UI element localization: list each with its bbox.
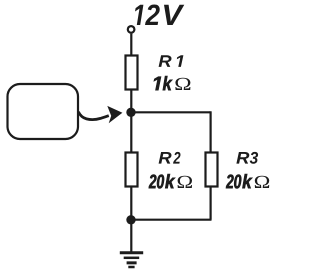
callout bubble xyxy=(8,84,79,139)
wire right branch down to R3 xyxy=(210,111,212,152)
terminal 12V xyxy=(128,26,135,33)
value 1k ohm xyxy=(154,76,173,90)
callout arrow curve xyxy=(78,112,109,120)
resistor R2 xyxy=(126,153,138,187)
ohm symbol (R3 value) xyxy=(255,176,269,188)
resistor R1 xyxy=(126,56,138,90)
value 20k ohm (R2) xyxy=(149,174,175,188)
wire R1 to node A xyxy=(130,90,132,113)
ohm symbol (R2 value) xyxy=(178,176,192,188)
callout arrowhead xyxy=(107,106,122,123)
bottom rail wire xyxy=(131,219,212,221)
junction bottom node xyxy=(126,215,135,224)
junction node A xyxy=(126,108,135,117)
wire R3 to bottom rail xyxy=(210,187,212,220)
label R3 xyxy=(236,152,258,164)
wire terminal to R1 xyxy=(130,34,132,55)
label R1 xyxy=(159,55,184,67)
wire node to ground xyxy=(130,220,132,252)
label R2 xyxy=(159,152,181,164)
wire node A to R2 xyxy=(130,112,132,152)
wire R2 to bottom node xyxy=(130,187,132,220)
node 12V label xyxy=(135,5,184,26)
wire node A to right branch xyxy=(131,111,211,113)
resistor R3 xyxy=(206,153,218,187)
ground xyxy=(120,253,143,267)
ohm symbol (R1 value) xyxy=(175,78,190,90)
value 20k ohm (R3) xyxy=(226,174,252,188)
